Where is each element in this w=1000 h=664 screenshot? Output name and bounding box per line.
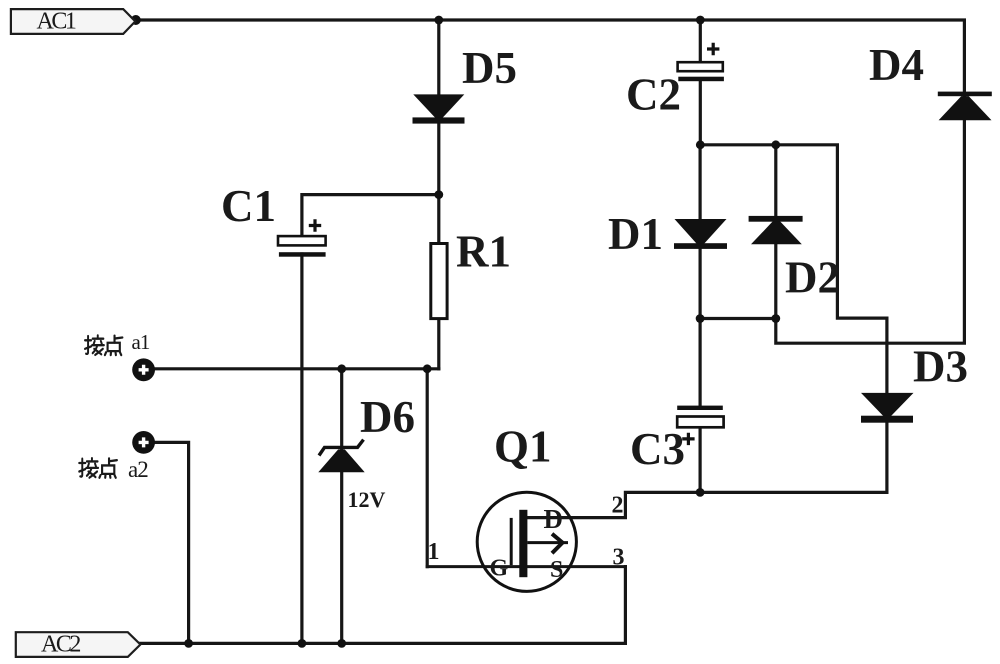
svg-text:AC2: AC2 xyxy=(41,632,80,658)
svg-text:3: 3 xyxy=(613,545,625,571)
svg-text:D1: D1 xyxy=(608,209,663,259)
svg-text:S: S xyxy=(550,557,563,583)
svg-text:AC1: AC1 xyxy=(37,9,76,35)
svg-text:D5: D5 xyxy=(462,43,517,93)
svg-text:2: 2 xyxy=(612,492,624,518)
svg-text:C2: C2 xyxy=(626,70,681,120)
svg-text:D2: D2 xyxy=(785,253,840,303)
svg-text:12V: 12V xyxy=(348,487,386,512)
svg-text:a2: a2 xyxy=(128,457,148,482)
svg-text:D: D xyxy=(544,504,564,534)
svg-text:C1: C1 xyxy=(221,181,276,231)
svg-text:D4: D4 xyxy=(869,40,924,90)
svg-text:1: 1 xyxy=(428,539,440,565)
svg-text:G: G xyxy=(490,556,509,582)
svg-text:R1: R1 xyxy=(456,227,511,277)
svg-text:D3: D3 xyxy=(913,342,968,392)
svg-text:a1: a1 xyxy=(132,330,150,354)
svg-text:D6: D6 xyxy=(360,392,415,442)
svg-text:Q1: Q1 xyxy=(494,422,552,472)
svg-text:C3: C3 xyxy=(630,424,685,474)
